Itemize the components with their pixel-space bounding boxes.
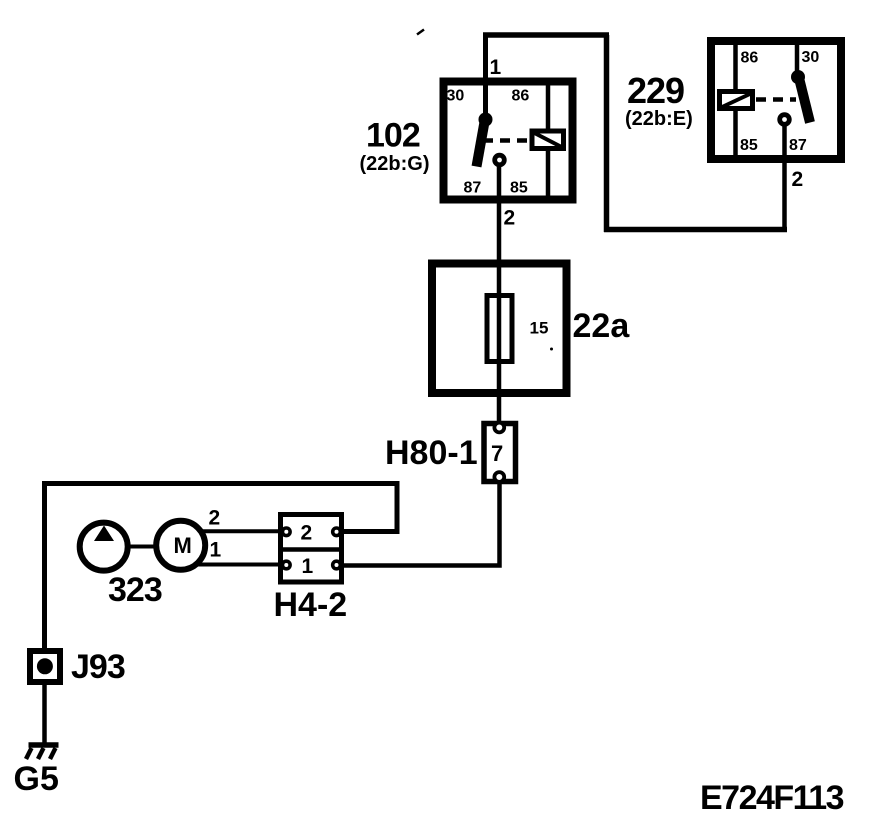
fuse box 22a: [432, 264, 567, 394]
relay 102 switch pivot dot: [479, 113, 493, 127]
connector H4-2 pin sockets row 1: [283, 561, 291, 569]
relay 102 switch arm: [477, 122, 485, 167]
connector H80-1 box: [484, 424, 516, 482]
svg-text:15: 15: [530, 319, 549, 338]
svg-text:2: 2: [301, 522, 313, 545]
relay 102 box: [444, 82, 573, 200]
wire: H4-2 pin 1 to H80-1: [344, 483, 500, 566]
svg-text:1: 1: [490, 56, 502, 79]
relay 102 coil wire to 86: [546, 80, 551, 129]
wire: bottom horizontal rail to relay 229 pin 2: [604, 227, 787, 233]
svg-text:86: 86: [741, 50, 759, 67]
svg-text:H4-2: H4-2: [274, 586, 348, 624]
svg-text:30: 30: [447, 88, 465, 105]
speck artifact near top: [417, 30, 424, 35]
speck dot: [550, 348, 553, 351]
svg-text:87: 87: [789, 137, 807, 154]
fuse 15 element: [487, 296, 512, 362]
svg-text:J93: J93: [71, 648, 125, 686]
svg-text:2: 2: [209, 507, 221, 530]
svg-text:(22b:E): (22b:E): [625, 108, 693, 130]
relay 102 coil: [532, 131, 564, 149]
relay 229 pin 30 stub: [795, 44, 800, 75]
connector H4-2 divider: [278, 547, 344, 552]
svg-text:2: 2: [504, 207, 516, 230]
relay 229 coil: [720, 92, 753, 109]
svg-text:1: 1: [210, 539, 222, 562]
svg-text:85: 85: [740, 137, 758, 154]
relay 102 contact circle (pin 2): [495, 155, 505, 165]
pump triangle: [94, 526, 114, 542]
wire: motor pin 1 to H4-2: [198, 563, 284, 567]
ground G5 hatch 3: [50, 748, 56, 759]
wire: right vertical drop from top rail: [604, 35, 610, 232]
svg-text:86: 86: [512, 88, 530, 105]
relay 102 dashed actuator link: [483, 138, 528, 143]
svg-text:30: 30: [802, 49, 820, 66]
svg-text:(22b:G): (22b:G): [360, 153, 430, 175]
relay 229 switch pivot dot: [791, 70, 805, 84]
relay 229 coil wire to 85: [733, 111, 738, 157]
wire: relay 229 pin 2 drop: [782, 124, 787, 230]
wire: relay 102 pin 1 up to top rail: [483, 35, 488, 120]
svg-text:229: 229: [627, 70, 684, 111]
svg-text:E724F113: E724F113: [700, 779, 844, 817]
wire: top horizontal rail: [483, 32, 609, 38]
relay 229 box: [711, 41, 841, 159]
relay 229 contact circle (pin 87): [780, 115, 790, 125]
shaft link pump to motor: [126, 545, 158, 549]
svg-text:G5: G5: [14, 760, 59, 798]
connector H4-2 box: [281, 515, 342, 583]
svg-text:87: 87: [464, 180, 482, 197]
svg-text:M: M: [174, 533, 192, 558]
svg-text:H80-1: H80-1: [385, 434, 478, 472]
motor circle M: [156, 521, 205, 570]
connector H4-2 pin sockets row 2: [283, 528, 291, 536]
relay 229 coil wire from 86: [733, 44, 738, 92]
wire: motor pin 2 to H4-2: [200, 529, 284, 533]
svg-text:1: 1: [302, 555, 314, 578]
splice J93 box: [30, 651, 60, 682]
ground G5 hatch 1: [26, 748, 32, 759]
ground G5 hatch 2: [38, 748, 44, 759]
connector H80-1 bottom pin socket: [494, 472, 504, 482]
ground G5 symbol bar: [29, 742, 59, 748]
connector H80-1 top pin socket: [494, 423, 504, 433]
wire: H4-2 pin 2 up over to J93 ground branch: [45, 484, 398, 651]
svg-text:22a: 22a: [573, 307, 631, 345]
svg-text:323: 323: [108, 571, 162, 609]
pump symbol circle (component 323): [80, 523, 128, 571]
relay 229 dashed actuator link: [756, 97, 796, 102]
wire: relay 102 pin 2 down through fuse to H80-1: [497, 164, 502, 422]
svg-text:85: 85: [510, 180, 528, 197]
wire: J93 to ground G5: [42, 682, 47, 744]
splice J93 dot: [37, 658, 53, 674]
svg-text:7: 7: [491, 441, 503, 466]
relay 229 switch arm: [800, 80, 811, 123]
svg-text:2: 2: [792, 168, 804, 191]
relay 102 coil wire to 85: [546, 151, 551, 200]
svg-text:102: 102: [366, 117, 420, 155]
